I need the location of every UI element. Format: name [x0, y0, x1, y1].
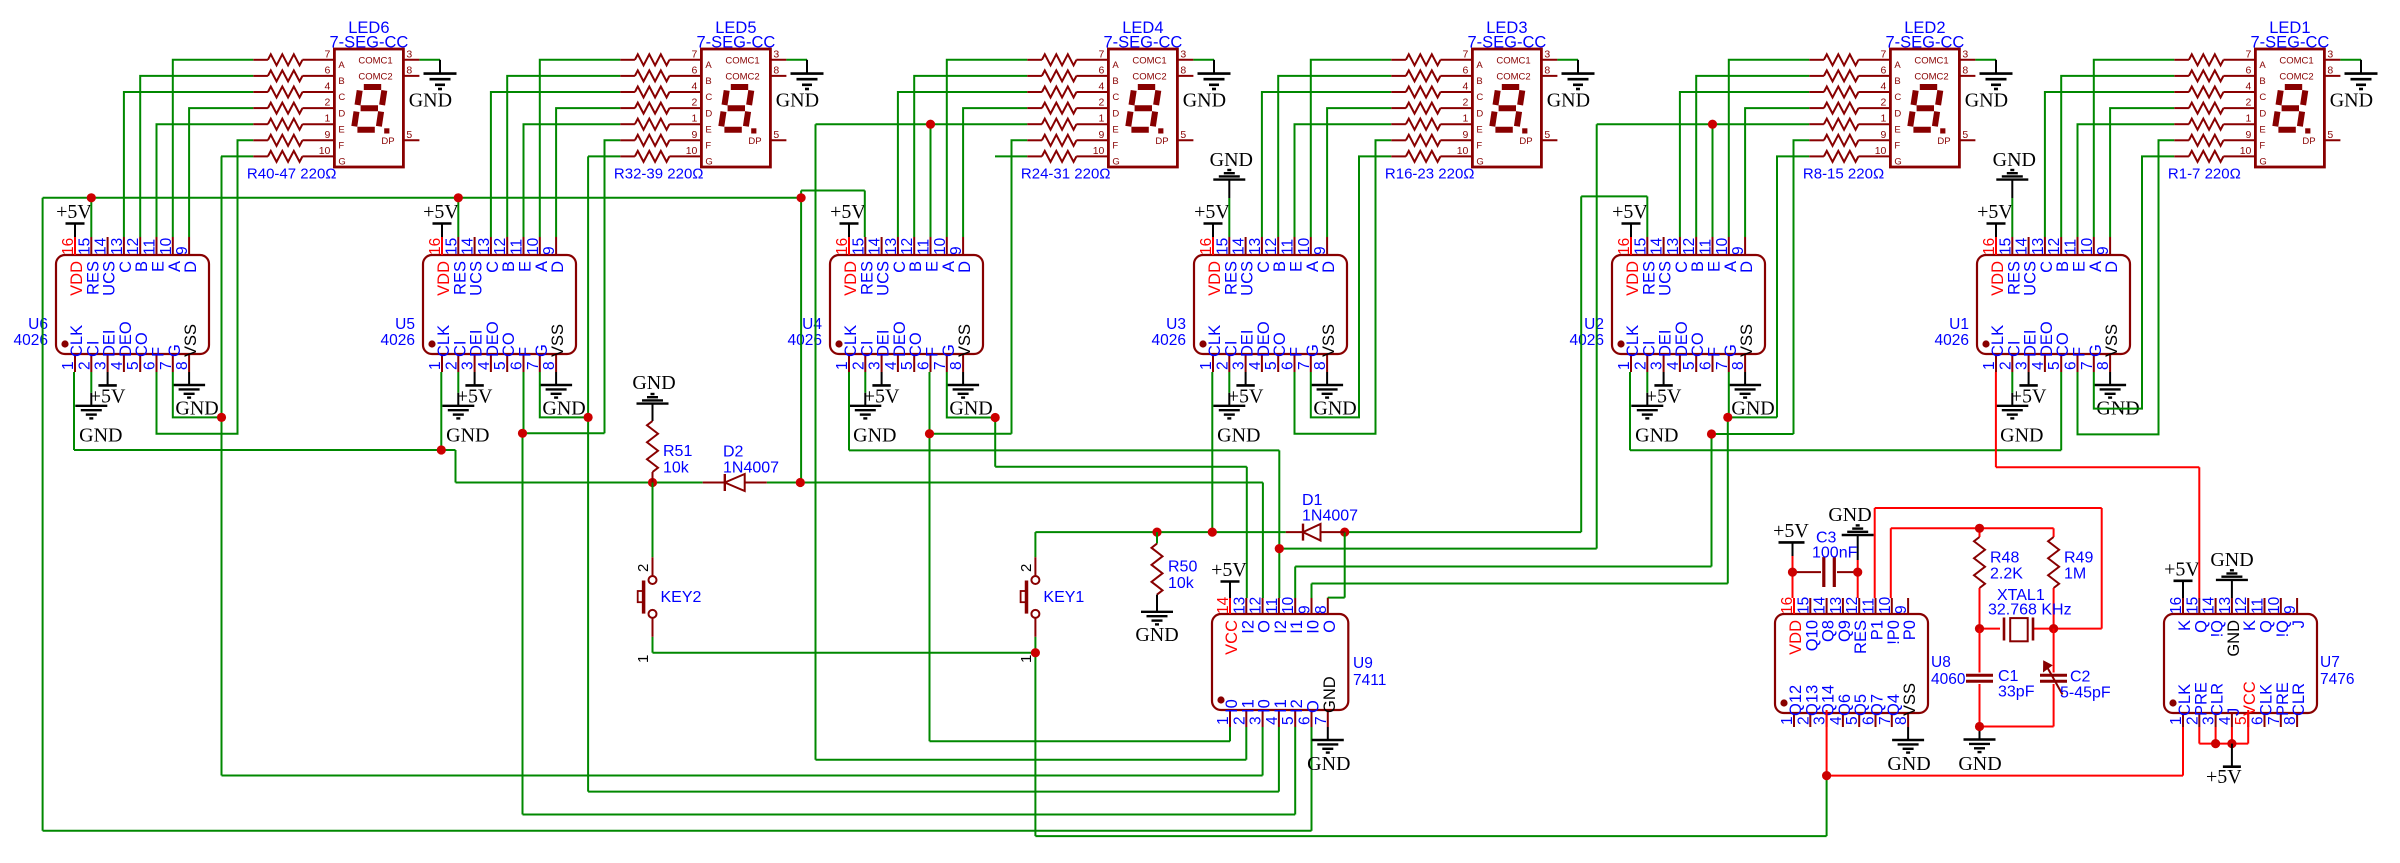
svg-text:E: E — [1288, 261, 1306, 272]
resistor R49 1M — [2048, 537, 2059, 629]
svg-text:13: 13 — [883, 238, 900, 255]
svg-text:1: 1 — [1215, 716, 1232, 725]
wire COMC1 to ground — [1193, 59, 1214, 61]
svg-text:4026: 4026 — [381, 332, 415, 349]
wire hours reset net (U6.15/U5.15/U4.15 to U9 pin 6 and D2) — [43, 191, 1312, 831]
svg-text:CI: CI — [84, 341, 102, 358]
svg-text:GND: GND — [1965, 90, 2008, 112]
svg-text:G: G — [1112, 157, 1119, 168]
+5V at U9 pin 14 — [1211, 559, 1247, 598]
svg-text:CO: CO — [500, 332, 518, 357]
svg-text:5: 5 — [1263, 361, 1280, 370]
ground at U5 pin 8 (VSS) — [540, 372, 586, 420]
svg-text:9: 9 — [1730, 246, 1747, 255]
svg-text:U1: U1 — [1949, 316, 1969, 333]
svg-text:CO: CO — [1689, 332, 1707, 357]
svg-text:16: 16 — [834, 238, 851, 255]
svg-text:VDD: VDD — [1624, 261, 1642, 296]
7-seg display LED6 — [319, 48, 420, 167]
svg-text:C: C — [2038, 261, 2056, 273]
svg-text:D: D — [182, 261, 200, 273]
svg-text:5-45pF: 5-45pF — [2060, 685, 2111, 702]
svg-text:VCC: VCC — [2241, 681, 2259, 716]
svg-text:F: F — [924, 347, 942, 357]
svg-text:13: 13 — [1828, 597, 1845, 614]
label LED4 — [1122, 19, 1163, 37]
wire segment F from U4 to LED4 — [931, 140, 1028, 433]
svg-text:9: 9 — [1463, 129, 1469, 141]
ground at U8 pin 8 (VSS) — [1887, 727, 1930, 775]
+5V supply at U4 pin 16 — [830, 201, 866, 237]
svg-text:8: 8 — [541, 361, 558, 370]
svg-text:D: D — [338, 108, 345, 119]
svg-text:5: 5 — [1962, 129, 1968, 141]
junction dot U2 G — [1723, 413, 1732, 422]
svg-text:+5V: +5V — [90, 385, 126, 407]
junction dots U7 strap — [2211, 739, 2236, 748]
junction dot at LED4 E row pin 11 — [926, 120, 935, 129]
svg-text:15: 15 — [1214, 238, 1231, 255]
svg-text:E: E — [1112, 124, 1118, 135]
svg-text:1: 1 — [834, 361, 851, 370]
svg-text:GND: GND — [79, 425, 122, 447]
svg-text:10: 10 — [319, 145, 331, 157]
svg-text:CO: CO — [907, 332, 925, 357]
svg-text:GND: GND — [1993, 149, 2036, 171]
svg-text:2: 2 — [1881, 97, 1887, 109]
ground at U9 pin 7 — [1307, 727, 1350, 775]
svg-text:6: 6 — [692, 64, 698, 76]
svg-text:R49: R49 — [2064, 550, 2093, 567]
svg-text:VCC: VCC — [1223, 620, 1241, 655]
svg-text:16: 16 — [1779, 597, 1796, 614]
label R1-7 220Ω — [2168, 166, 2241, 183]
svg-text:E: E — [705, 124, 711, 135]
+5V at U1 pin 3 (DEI) — [2011, 372, 2047, 407]
svg-text:4: 4 — [1828, 716, 1845, 725]
svg-text:Q5: Q5 — [1852, 694, 1870, 716]
junction dot KEY1 pin 1 — [1031, 648, 1040, 657]
junction dot R48 top — [1975, 524, 1984, 533]
svg-text:3: 3 — [867, 361, 884, 370]
variable capacitor C2 5-45pF — [2040, 629, 2067, 727]
svg-text:PRE: PRE — [2192, 682, 2210, 716]
wire COMC1 to ground — [419, 59, 440, 61]
+5V at U2 pin 3 (DEI) — [1646, 372, 1682, 407]
svg-text:9: 9 — [2095, 246, 2112, 255]
svg-text:C: C — [1255, 261, 1273, 273]
svg-text:10: 10 — [932, 237, 949, 255]
svg-text:2: 2 — [850, 361, 867, 370]
svg-text:A: A — [533, 261, 551, 272]
svg-text:GND: GND — [409, 90, 452, 112]
svg-text:C: C — [338, 92, 345, 103]
svg-text:3: 3 — [1649, 361, 1666, 370]
wire LED5 segment-G tap to U9 pin 4 — [588, 156, 1279, 791]
label 7-SEG-CC — [696, 34, 775, 52]
label 7-SEG-CC — [1885, 34, 1964, 52]
ground at U1 pin 15 (RES) — [1993, 149, 2036, 237]
svg-text:G: G — [1894, 157, 1901, 168]
svg-text:3: 3 — [2201, 716, 2218, 725]
capacitor C3 100nF — [1793, 557, 1858, 587]
svg-text:15: 15 — [1997, 238, 2014, 255]
svg-text:+5V: +5V — [1977, 201, 2013, 223]
svg-text:10: 10 — [1875, 145, 1887, 157]
7-seg display LED4 — [1093, 48, 1194, 167]
7-seg display LED3 — [1457, 48, 1558, 167]
label R8-15 220Ω — [1803, 166, 1884, 183]
ground at U3 pin 2 (CI) — [1213, 372, 1260, 447]
svg-text:R8-15 220Ω: R8-15 220Ω — [1803, 166, 1884, 183]
svg-text:CI: CI — [2005, 341, 2023, 358]
svg-text:CO: CO — [133, 332, 151, 357]
ground at LED6 common cathode — [409, 60, 457, 112]
svg-text:9: 9 — [1297, 605, 1314, 614]
7-seg display LED2 — [1875, 48, 1976, 167]
label U2 — [1570, 316, 1604, 349]
diode D2 1N4007 — [703, 474, 767, 491]
wire COMC1 to ground — [1975, 59, 1996, 61]
svg-text:UCS: UCS — [1239, 261, 1257, 296]
svg-text:33pF: 33pF — [1998, 684, 2035, 701]
ground at U3 pin 15 (RES) — [1210, 149, 1253, 237]
label R50 — [1168, 559, 1197, 593]
ground at LED3 common cathode — [1547, 60, 1595, 112]
svg-text:E: E — [1476, 124, 1482, 135]
svg-text:8: 8 — [2282, 716, 2299, 725]
svg-text:C: C — [484, 261, 502, 273]
svg-text:G: G — [1304, 344, 1322, 357]
svg-text:7: 7 — [932, 361, 949, 370]
7-seg display LED5 — [686, 48, 787, 167]
svg-text:G: G — [166, 344, 184, 357]
svg-text:16: 16 — [60, 238, 77, 255]
svg-text:+5V: +5V — [1612, 201, 1648, 223]
svg-text:7: 7 — [2079, 361, 2096, 370]
svg-text:GND: GND — [1635, 425, 1678, 447]
svg-text:GND: GND — [2225, 620, 2243, 657]
svg-text:2: 2 — [443, 361, 460, 370]
wire U8 !P0 to R48/R49 — [1891, 528, 2054, 598]
svg-text:3: 3 — [2014, 361, 2031, 370]
wire LED2 segment-F tap to U9 pin 10 — [1295, 434, 1711, 598]
resistor R48 2.2K — [1974, 537, 1985, 629]
svg-text:14: 14 — [460, 237, 477, 255]
svg-text:12: 12 — [125, 238, 142, 255]
svg-text:5: 5 — [1544, 129, 1550, 141]
svg-text:A: A — [1304, 261, 1322, 272]
svg-text:7: 7 — [2266, 716, 2283, 725]
svg-text:GND: GND — [175, 398, 218, 420]
+5V at U5 pin 3 (DEI) — [457, 372, 493, 407]
svg-text:J: J — [2225, 708, 2243, 716]
svg-text:DEI: DEI — [101, 329, 119, 357]
svg-text:8: 8 — [2095, 361, 2112, 370]
wire segment G from U1 to LED1 — [2094, 156, 2174, 408]
svg-text:F: F — [1476, 141, 1482, 152]
resistor network R8-15 for LED2 — [1809, 54, 1890, 162]
svg-text:5: 5 — [1681, 361, 1698, 370]
ground at LED1 common cathode — [2330, 60, 2378, 112]
svg-text:7476: 7476 — [2320, 671, 2354, 688]
junction dots on set net — [437, 445, 805, 487]
wire segments C,B,E,A,D from U3 to LED3 — [1262, 60, 1391, 237]
svg-text:10: 10 — [1457, 145, 1469, 157]
svg-text:COMC2: COMC2 — [1132, 72, 1166, 83]
svg-text:D: D — [549, 261, 567, 273]
junction dot C1 bottom — [1975, 722, 1984, 731]
svg-text:2: 2 — [1231, 716, 1248, 725]
ground at C1/C2 — [1958, 727, 2053, 776]
svg-text:7411: 7411 — [1353, 672, 1386, 689]
svg-text:2: 2 — [1463, 97, 1469, 109]
svg-text:+5V: +5V — [864, 385, 900, 407]
svg-text:E: E — [517, 261, 535, 272]
svg-text:11: 11 — [916, 239, 933, 255]
svg-text:Q8: Q8 — [1820, 620, 1838, 642]
svg-text:F: F — [2259, 141, 2265, 152]
svg-text:1N4007: 1N4007 — [723, 460, 779, 477]
resistor network R40-47 for LED6 — [253, 54, 334, 162]
svg-text:I1: I1 — [1239, 699, 1257, 713]
svg-text:7: 7 — [1714, 361, 1731, 370]
svg-text:D: D — [2259, 108, 2266, 119]
svg-text:14: 14 — [1215, 596, 1232, 614]
IC U4 4026 counter/display driver — [830, 237, 983, 372]
svg-text:3: 3 — [460, 361, 477, 370]
svg-text:GND: GND — [1958, 753, 2001, 775]
wire U1 carry (pin 5) to U2 clock (pin 1) — [1630, 372, 2061, 450]
svg-text:+5V: +5V — [1211, 559, 1247, 581]
svg-text:7-SEG-CC: 7-SEG-CC — [2250, 34, 2329, 52]
svg-text:8: 8 — [948, 361, 965, 370]
svg-text:10k: 10k — [1168, 575, 1195, 592]
wire LED2 segment-E tap and U4 clock line to U9 pin 11 — [1279, 124, 1809, 598]
IC U7 7476 dual JK flip-flop — [2164, 596, 2317, 727]
svg-text:F: F — [1706, 347, 1724, 357]
svg-text:5: 5 — [492, 361, 509, 370]
wire segment G from U4 to LED4 — [947, 156, 1027, 417]
svg-text:U8: U8 — [1931, 654, 1951, 671]
svg-text:C2: C2 — [2070, 669, 2091, 686]
junction dot at LED2 E row pin 11 — [1708, 120, 1717, 129]
ground at U7 pin 13 — [2210, 549, 2253, 598]
svg-text:6: 6 — [509, 361, 526, 370]
ground at U1 pin 8 (VSS) — [2094, 372, 2140, 420]
label D1 — [1302, 492, 1358, 525]
svg-text:DEO: DEO — [484, 321, 502, 357]
svg-text:1: 1 — [60, 361, 77, 370]
svg-text:B: B — [705, 76, 711, 87]
+5V at U8 pin 16 — [1773, 520, 1809, 598]
label U4 — [788, 316, 823, 349]
ground at LED5 common cathode — [776, 60, 824, 112]
svg-text:I0: I0 — [1223, 699, 1241, 713]
svg-text:6: 6 — [2246, 64, 2252, 76]
svg-text:5: 5 — [2046, 361, 2063, 370]
svg-text:E: E — [2071, 261, 2089, 272]
svg-text:+5V: +5V — [2164, 558, 2200, 580]
svg-text:D: D — [1320, 261, 1338, 273]
svg-text:UCS: UCS — [1657, 261, 1675, 296]
svg-text:CLK: CLK — [2258, 684, 2276, 716]
svg-text:4060: 4060 — [1931, 671, 1966, 688]
svg-text:GND: GND — [1135, 624, 1178, 646]
wire segment F from U5 to LED5 — [524, 140, 621, 433]
svg-text:R24-31 220Ω: R24-31 220Ω — [1021, 166, 1111, 183]
+5V supply at U3 pin 16 — [1194, 201, 1230, 237]
svg-text:6: 6 — [325, 64, 331, 76]
label LED5 — [715, 19, 756, 37]
ground at LED4 common cathode — [1183, 60, 1231, 112]
svg-text:10k: 10k — [663, 460, 690, 477]
svg-text:F: F — [1288, 347, 1306, 357]
label 7-SEG-CC — [329, 34, 408, 52]
label LED3 — [1486, 19, 1527, 37]
svg-text:C: C — [1894, 92, 1901, 103]
svg-text:12: 12 — [2233, 597, 2250, 614]
svg-text:VSS: VSS — [2103, 324, 2121, 357]
wire U8 P1 feedback loop — [1875, 508, 2102, 629]
svg-text:D: D — [1112, 108, 1119, 119]
svg-text:Q14: Q14 — [1820, 685, 1838, 716]
svg-text:13: 13 — [1231, 597, 1248, 614]
svg-text:I1: I1 — [1272, 699, 1290, 713]
svg-text:B: B — [338, 76, 344, 87]
svg-text:COMC1: COMC1 — [725, 56, 759, 67]
wire segments C,B,E,A,D from U5 to LED5 — [491, 60, 620, 237]
label R40-47 220Ω — [247, 166, 337, 183]
svg-text:4: 4 — [1099, 81, 1105, 93]
wire KEY2 pin2 to set net — [652, 483, 654, 558]
svg-text:COMC2: COMC2 — [1914, 72, 1948, 83]
svg-text:B: B — [500, 261, 518, 272]
svg-text:GND: GND — [632, 372, 675, 394]
svg-text:14: 14 — [1649, 237, 1666, 255]
svg-text:A: A — [940, 261, 958, 272]
svg-text:E: E — [150, 261, 168, 272]
svg-text:I1: I1 — [1288, 620, 1306, 634]
junction dot at U9 pin 11 tee — [1275, 544, 1284, 553]
svg-text:U6: U6 — [28, 316, 48, 333]
svg-text:PRE: PRE — [2274, 682, 2292, 716]
svg-text:P1: P1 — [1869, 620, 1887, 640]
svg-text:U5: U5 — [395, 316, 415, 333]
svg-text:32.768 KHz: 32.768 KHz — [1988, 602, 2072, 619]
svg-text:12: 12 — [1681, 238, 1698, 255]
junction dots at crystal — [1975, 624, 2058, 633]
svg-text:U4: U4 — [802, 316, 822, 333]
svg-text:4: 4 — [1247, 361, 1264, 370]
svg-text:6: 6 — [1463, 64, 1469, 76]
svg-text:CLR: CLR — [2290, 683, 2308, 716]
svg-text:4: 4 — [1264, 716, 1281, 725]
IC U2 4026 counter/display driver — [1612, 237, 1765, 372]
svg-text:15: 15 — [850, 238, 867, 255]
svg-text:VSS: VSS — [1901, 683, 1919, 716]
svg-text:7: 7 — [525, 361, 542, 370]
svg-text:Q: Q — [2192, 620, 2210, 633]
svg-text:COMC2: COMC2 — [725, 72, 759, 83]
svg-text:1: 1 — [1981, 361, 1998, 370]
svg-text:+5V: +5V — [423, 201, 459, 223]
svg-text:A: A — [2259, 60, 2266, 71]
label R49 — [2064, 550, 2093, 583]
svg-text:5: 5 — [1280, 716, 1297, 725]
label XTAL1 — [1988, 587, 2072, 619]
svg-text:B: B — [907, 261, 925, 272]
ground at U8 pin 12 (RES) — [1828, 504, 1873, 598]
label 7-SEG-CC — [2250, 34, 2329, 52]
svg-text:O: O — [1321, 620, 1339, 633]
svg-text:9: 9 — [2246, 129, 2252, 141]
svg-text:DEI: DEI — [875, 329, 893, 357]
svg-text:12: 12 — [2046, 238, 2063, 255]
label U8 — [1931, 654, 1966, 688]
svg-text:8: 8 — [1180, 64, 1186, 76]
svg-text:B: B — [2259, 76, 2265, 87]
push button KEY2 — [635, 557, 702, 663]
svg-text:D: D — [1476, 108, 1483, 119]
svg-text:KEY2: KEY2 — [661, 589, 702, 606]
svg-text:4026: 4026 — [1152, 332, 1186, 349]
svg-text:E: E — [1706, 261, 1724, 272]
resistor network R24-31 for LED4 — [1027, 54, 1108, 162]
svg-text:3: 3 — [93, 361, 110, 370]
svg-text:4: 4 — [2217, 716, 2234, 725]
svg-text:F: F — [338, 141, 344, 152]
svg-text:GND: GND — [853, 425, 896, 447]
svg-text:11: 11 — [142, 239, 159, 255]
svg-text:15: 15 — [1795, 597, 1812, 614]
label U5 — [381, 316, 415, 349]
svg-text:F: F — [1894, 141, 1900, 152]
svg-text:9: 9 — [1881, 129, 1887, 141]
svg-text:6: 6 — [1881, 64, 1887, 76]
ground at U6 pin 2 (CI) — [75, 372, 122, 447]
svg-text:C: C — [1673, 261, 1691, 273]
svg-text:+5V: +5V — [1646, 385, 1682, 407]
svg-text:F: F — [517, 347, 535, 357]
svg-text:U9: U9 — [1353, 655, 1373, 672]
label R32-39 220Ω — [614, 166, 704, 183]
svg-text:8: 8 — [1313, 605, 1330, 614]
svg-text:+5V: +5V — [1194, 201, 1230, 223]
svg-text:1: 1 — [1881, 113, 1887, 125]
svg-text:R32-39 220Ω: R32-39 220Ω — [614, 166, 704, 183]
svg-text:2: 2 — [2184, 716, 2201, 725]
svg-text:CLK: CLK — [1989, 325, 2007, 357]
svg-text:16: 16 — [427, 238, 444, 255]
svg-text:14: 14 — [867, 237, 884, 255]
svg-text:13: 13 — [476, 238, 493, 255]
svg-text:COMC1: COMC1 — [2279, 56, 2313, 67]
svg-text:4026: 4026 — [788, 332, 822, 349]
svg-text:2: 2 — [325, 97, 331, 109]
svg-text:CLK: CLK — [842, 325, 860, 357]
svg-text:D: D — [705, 108, 712, 119]
diode D1 1N4007 — [1286, 524, 1345, 541]
ground at U6 pin 8 (VSS) — [173, 372, 219, 420]
svg-text:D: D — [1894, 108, 1901, 119]
svg-text:UCS: UCS — [101, 261, 119, 296]
ground at U5 pin 2 (CI) — [442, 372, 489, 447]
svg-text:GND: GND — [1313, 398, 1356, 420]
svg-text:A: A — [1112, 60, 1119, 71]
svg-text:A: A — [2087, 261, 2105, 272]
svg-text:3: 3 — [1248, 716, 1265, 725]
